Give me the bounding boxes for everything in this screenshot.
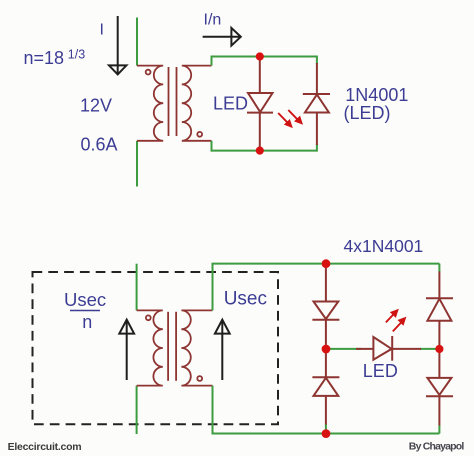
transformer T1 <box>137 66 212 141</box>
secondary loop rectangle (green wires) <box>212 56 317 152</box>
svg-text:1N4001: 1N4001 <box>345 85 408 105</box>
LED D1 (left branch, pointing down) <box>247 57 273 151</box>
svg-text:12V: 12V <box>80 95 112 115</box>
junction node top <box>256 52 264 60</box>
wire bottom rail <box>212 150 317 152</box>
svg-text:LED: LED <box>363 361 398 381</box>
svg-text:Usec: Usec <box>224 289 267 310</box>
wire right stub top <box>316 56 318 65</box>
diode D2 1N4001 (right branch, pointing up) <box>303 63 330 145</box>
wire primary bottom dangling (green) <box>136 386 138 434</box>
junction node bottom <box>256 147 264 155</box>
dashed equivalent-source box <box>33 272 279 424</box>
diode D3 (top-left, pointing down) <box>312 302 339 320</box>
svg-text:n=18: n=18 <box>24 48 65 68</box>
label Usec/n fraction <box>64 289 106 332</box>
svg-text:I: I <box>100 22 104 39</box>
svg-text:n: n <box>82 312 92 332</box>
wire right stub bottom <box>316 144 318 152</box>
svg-text:Eleccircuit.com: Eleccircuit.com <box>8 441 82 453</box>
junction node bridge middle-right <box>435 345 443 353</box>
wire secondary bottom to bridge (green) <box>213 386 440 434</box>
junction node bridge bottom-left <box>322 429 331 438</box>
svg-text:I/n: I/n <box>204 12 222 29</box>
arrow right for current I/n <box>203 28 241 46</box>
wire left stub top <box>211 56 213 66</box>
svg-text:LED: LED <box>213 94 248 114</box>
label 1N4001 (LED) <box>344 85 409 123</box>
light emission arrows of LED D7 <box>386 310 405 331</box>
wire green stub right branch bottom <box>438 425 440 434</box>
junction node bridge top-left <box>322 259 331 268</box>
LED D7 (middle, pointing right) <box>356 336 421 361</box>
bridge left branch wire <box>325 264 327 425</box>
wire primary bottom (green) <box>136 141 138 187</box>
transformer T2 <box>137 310 213 385</box>
light emission arrows of LED D1 <box>278 110 301 127</box>
wire bridge middle rail (green) <box>326 348 361 350</box>
wire top rail <box>212 56 317 58</box>
junction node bridge middle-left <box>322 345 331 354</box>
wire primary top (green) <box>136 18 138 66</box>
label n=18^1/3 <box>24 48 86 69</box>
voltage arrow up (secondary) <box>215 320 230 380</box>
svg-text:(LED): (LED) <box>344 103 391 123</box>
wire secondary top to bridge (green) <box>213 264 440 311</box>
svg-text:Usec: Usec <box>64 289 106 310</box>
diode D6 (bottom-right, pointing down) <box>426 378 453 396</box>
voltage arrow up (primary) <box>119 320 134 380</box>
svg-text:By Chayapol: By Chayapol <box>409 441 465 453</box>
wire primary top dangling (green) <box>136 264 138 311</box>
svg-text:4x1N4001: 4x1N4001 <box>344 236 424 256</box>
svg-text:0.6A: 0.6A <box>81 135 118 155</box>
wire left stub bottom <box>211 141 213 152</box>
bridge right branch wire <box>438 272 440 426</box>
svg-text:1/3: 1/3 <box>68 48 85 62</box>
wire green stub left branch bottom <box>325 424 327 434</box>
wire green stub right branch top <box>438 264 440 273</box>
diode D5 (top-right, pointing up) <box>426 298 453 321</box>
arrow down for current I <box>109 16 126 74</box>
diode D4 (bottom-left, pointing up) <box>312 377 339 396</box>
